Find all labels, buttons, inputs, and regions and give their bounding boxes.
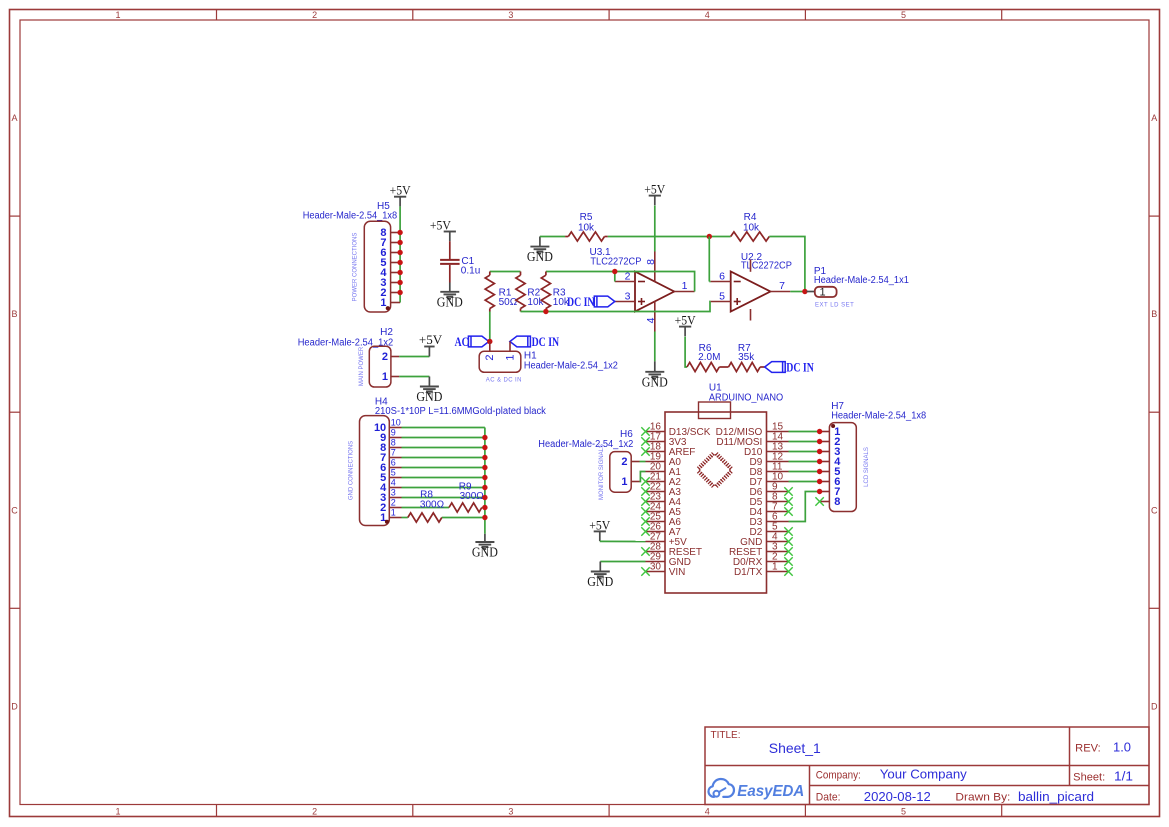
svg-text:GND: GND <box>416 389 442 404</box>
svg-text:3: 3 <box>508 807 513 817</box>
resistor R2 10k <box>516 272 545 312</box>
svg-text:MONITOR SIGNALS: MONITOR SIGNALS <box>599 444 605 500</box>
svg-text:50Ω: 50Ω <box>499 297 518 308</box>
svg-text:EXT LD SET: EXT LD SET <box>815 303 854 309</box>
svg-text:1: 1 <box>772 562 778 573</box>
no-connect X at H7 pin8 <box>815 497 823 505</box>
op-amp U3.1 TLC2272CP <box>590 247 695 332</box>
resistor R6 2.0M <box>687 343 720 372</box>
header H2 Header-Male-2.54_1x2 <box>298 327 400 387</box>
capacitor C1 0.1u <box>440 241 480 282</box>
net flag DC IN at H1 pin1 <box>510 334 560 349</box>
svg-text:3: 3 <box>391 488 396 498</box>
wire +5V to R6 <box>685 337 687 367</box>
header H5 Header-Male-2.54_1x8 <box>303 201 400 312</box>
svg-text:AC: AC <box>455 334 469 349</box>
svg-text:1: 1 <box>504 354 516 360</box>
svg-text:D: D <box>11 701 18 711</box>
svg-text:C: C <box>11 505 18 515</box>
svg-text:A: A <box>11 113 17 123</box>
svg-text:VIN: VIN <box>669 567 686 578</box>
svg-text:POWER CONNECTIONS: POWER CONNECTIONS <box>353 233 359 302</box>
svg-text:GND CONNECTIONS: GND CONNECTIONS <box>349 441 355 500</box>
header H6 Header-Male-2.54_1x2 <box>538 429 639 500</box>
wire bottom rail R2/R3 to U2.2 pin5 <box>521 302 711 312</box>
svg-text:B: B <box>11 309 17 319</box>
svg-text:Header-Male-2.54_1x2: Header-Male-2.54_1x2 <box>538 439 633 450</box>
svg-text:9: 9 <box>391 428 396 438</box>
wire GND to R5 <box>540 236 565 238</box>
ground GND below U3.1 pin 4 <box>642 332 668 390</box>
svg-text:Your Company: Your Company <box>880 767 968 782</box>
svg-text:2.0M: 2.0M <box>698 352 720 363</box>
resistor R8 300Ohm <box>408 490 445 522</box>
header H4 210S-1*10P <box>349 397 547 526</box>
junction dot U3.1 pin2 node <box>612 269 617 274</box>
svg-text:Header-Male-2.54_1x8: Header-Male-2.54_1x8 <box>831 410 926 421</box>
svg-text:1: 1 <box>115 10 120 20</box>
wire U1 D3 to H7 pin7 <box>789 492 820 522</box>
svg-text:10k: 10k <box>553 297 570 308</box>
svg-text:35k: 35k <box>738 352 755 363</box>
svg-text:2: 2 <box>382 351 388 363</box>
svg-text:+5V: +5V <box>390 183 412 198</box>
svg-text:Header-Male-2.54_1x8: Header-Male-2.54_1x8 <box>303 210 398 221</box>
svg-text:7: 7 <box>779 280 785 292</box>
svg-text:1.0: 1.0 <box>1113 740 1131 755</box>
resistor R7 35k <box>729 343 765 372</box>
power flag +5V at U1 pin27 <box>589 517 611 541</box>
junction dots at H7 pins <box>817 429 822 494</box>
svg-text:GND: GND <box>642 374 668 389</box>
power flag +5V at C1 <box>430 218 456 242</box>
ground GND below H4 bus <box>472 534 498 560</box>
U1 left pins 16-30 <box>646 422 711 578</box>
svg-text:+5V: +5V <box>675 313 697 328</box>
svg-text:3: 3 <box>508 10 513 20</box>
svg-text:30: 30 <box>650 562 662 573</box>
svg-text:Drawn By:: Drawn By: <box>955 792 1010 804</box>
svg-text:TITLE:: TITLE: <box>711 730 741 741</box>
svg-text:Date:: Date: <box>816 792 841 804</box>
svg-text:8: 8 <box>391 438 396 448</box>
wire +5V to U1 pin27 <box>600 540 646 542</box>
wire GND bus vertical <box>484 428 486 534</box>
svg-text:5: 5 <box>391 468 396 478</box>
svg-text:AC & DC IN: AC & DC IN <box>486 378 522 384</box>
EasyEDA logo <box>709 779 805 800</box>
svg-text:Sheet_1: Sheet_1 <box>769 740 821 756</box>
ground GND at H2 pin1 <box>416 377 442 405</box>
svg-text:5: 5 <box>719 290 725 302</box>
svg-text:A: A <box>1151 113 1157 123</box>
wire H6 pin1 to U1 A1 <box>640 472 646 482</box>
svg-text:GND: GND <box>587 574 613 589</box>
header H7 Header-Male-2.54_1x8 <box>820 401 927 512</box>
wire U2.2 output to P1 <box>790 291 805 293</box>
junction dots on H5 pins <box>397 230 402 295</box>
U1 IC diamond glyph <box>697 453 732 488</box>
svg-text:ballin_picard: ballin_picard <box>1018 789 1094 804</box>
wire U2.2 pin6 stub connect <box>709 281 710 283</box>
svg-text:10: 10 <box>391 418 401 428</box>
svg-text:1/1: 1/1 <box>1114 769 1133 784</box>
svg-text:+5V: +5V <box>430 218 452 233</box>
svg-text:D: D <box>1151 701 1158 711</box>
svg-text:GND: GND <box>527 249 553 264</box>
svg-text:2020-08-12: 2020-08-12 <box>864 789 931 804</box>
junction dot output node <box>802 289 807 294</box>
svg-text:+5V: +5V <box>589 517 611 532</box>
U1 right pins 15-1 <box>716 422 789 578</box>
svg-text:TLC2272CP: TLC2272CP <box>741 260 792 271</box>
resistor R4 10k <box>731 212 770 241</box>
svg-text:10k: 10k <box>743 223 760 234</box>
svg-text:1: 1 <box>115 807 120 817</box>
net flag DC IN at R7 <box>765 359 815 374</box>
svg-text:1: 1 <box>382 371 388 383</box>
title block <box>705 727 1149 805</box>
svg-text:R5: R5 <box>580 212 593 223</box>
wires U1 D12-D7 to H7 pins 1-6 <box>789 432 820 482</box>
svg-text:210S-1*10P L=11.6MMGold-plated: 210S-1*10P L=11.6MMGold-plated black <box>375 406 547 417</box>
wire R1 bottom to AC node <box>489 312 491 342</box>
svg-text:1: 1 <box>621 476 627 488</box>
svg-text:TLC2272CP: TLC2272CP <box>590 256 641 267</box>
svg-text:Header-Male-2.54_1x2: Header-Male-2.54_1x2 <box>524 360 618 371</box>
svg-text:REV:: REV: <box>1075 743 1101 755</box>
svg-text:DC IN: DC IN <box>532 334 560 349</box>
power flag +5V at R6 <box>675 313 697 337</box>
junction dot R3 bottom <box>543 309 548 314</box>
svg-text:300Ω: 300Ω <box>420 499 445 510</box>
net flag DC IN at U3.1 pin 3 <box>567 294 615 309</box>
svg-text:6: 6 <box>391 458 396 468</box>
svg-text:LCD SIGNALS: LCD SIGNALS <box>864 447 870 487</box>
wire H6 pin2 to U1 A0 <box>640 461 646 463</box>
svg-text:Company:: Company: <box>816 770 861 782</box>
svg-text:6: 6 <box>719 270 725 282</box>
header P1 Header-Male-2.54_1x1 <box>814 266 909 309</box>
resistor R9 300Ohm <box>449 482 484 512</box>
wire R5 to R4 rail <box>608 236 731 238</box>
ground GND at U1 pin29 <box>587 562 613 590</box>
wire R6 to R7 <box>719 366 728 368</box>
svg-text:B: B <box>1151 309 1157 319</box>
svg-text:1: 1 <box>380 297 386 309</box>
power flag +5V at H5 <box>390 183 412 207</box>
svg-text:R4: R4 <box>744 212 757 223</box>
svg-text:2: 2 <box>621 456 627 468</box>
wire H2 pin2 to +5V <box>399 356 429 358</box>
wire H2 pin1 to GND <box>399 376 429 378</box>
svg-text:GND: GND <box>437 294 463 309</box>
svg-text:8: 8 <box>645 259 657 265</box>
wire P1 pin stub <box>807 291 815 293</box>
wire U1 pin29 to GND <box>600 561 645 563</box>
svg-text:4: 4 <box>391 478 396 488</box>
svg-text:0.1u: 0.1u <box>461 265 480 276</box>
svg-text:2: 2 <box>391 498 396 508</box>
svg-text:4: 4 <box>705 10 710 20</box>
svg-text:1: 1 <box>391 508 396 518</box>
svg-text:3: 3 <box>625 290 631 302</box>
wire +5V down to U3.1 pin 8 <box>654 206 656 252</box>
svg-text:300Ω: 300Ω <box>460 491 485 502</box>
ground GND at R5 left <box>527 237 553 265</box>
resistor R3 10k <box>541 272 570 312</box>
resistor R5 10k <box>565 212 608 241</box>
svg-text:1: 1 <box>682 280 688 292</box>
svg-text:EasyEDA: EasyEDA <box>737 783 804 800</box>
svg-text:2: 2 <box>484 354 496 360</box>
ground GND below C1 <box>437 283 463 310</box>
svg-text:+5V: +5V <box>419 332 443 347</box>
wires H4 pins to GND bus <box>402 428 485 518</box>
power flag +5V at H2 <box>419 332 443 357</box>
svg-text:DC IN: DC IN <box>567 294 595 309</box>
junction dot AC node <box>487 339 492 344</box>
svg-text:5: 5 <box>901 807 906 817</box>
svg-text:1: 1 <box>820 287 826 299</box>
svg-text:GND: GND <box>472 545 498 560</box>
svg-text:2: 2 <box>312 10 317 20</box>
svg-text:Sheet:: Sheet: <box>1073 772 1105 784</box>
junction dot feedback rail to U2.2 pin6 <box>707 234 712 239</box>
no-connect X marks U1 left pins <box>641 427 649 575</box>
svg-text:C: C <box>1151 505 1158 515</box>
wire R4 right to output node <box>769 237 805 292</box>
junction dots on GND bus <box>482 435 487 520</box>
wire R1 top to R2 top <box>490 271 521 273</box>
svg-text:DC IN: DC IN <box>786 359 814 374</box>
svg-text:7: 7 <box>391 448 396 458</box>
wire U3.1 pin2 node rail <box>546 272 695 292</box>
svg-text:10k: 10k <box>527 297 544 308</box>
svg-text:2: 2 <box>312 807 317 817</box>
wire +5V to H5 pins bus <box>399 206 401 302</box>
op-amp U2.2 TLC2272CP <box>711 252 793 321</box>
svg-text:8: 8 <box>834 496 840 508</box>
svg-text:D1/TX: D1/TX <box>734 567 763 578</box>
resistor R1 50Ohm <box>485 272 518 312</box>
svg-text:10k: 10k <box>578 223 595 234</box>
svg-text:Header-Male-2.54_1x1: Header-Male-2.54_1x1 <box>814 275 909 286</box>
power flag +5V center <box>644 182 666 206</box>
svg-text:5: 5 <box>901 10 906 20</box>
net flag AC <box>455 334 489 349</box>
svg-text:4: 4 <box>705 807 710 817</box>
mcu U1 ARDUINO_NANO <box>665 383 783 594</box>
svg-text:MAIN POWER: MAIN POWER <box>359 346 365 386</box>
no-connect X marks U1 right pins <box>784 487 792 575</box>
wire junction down to U2.2 pin 6 <box>708 237 710 282</box>
header H1 Header-Male-2.54_1x2 <box>479 342 618 384</box>
svg-text:4: 4 <box>645 317 657 323</box>
svg-text:+5V: +5V <box>644 182 666 197</box>
